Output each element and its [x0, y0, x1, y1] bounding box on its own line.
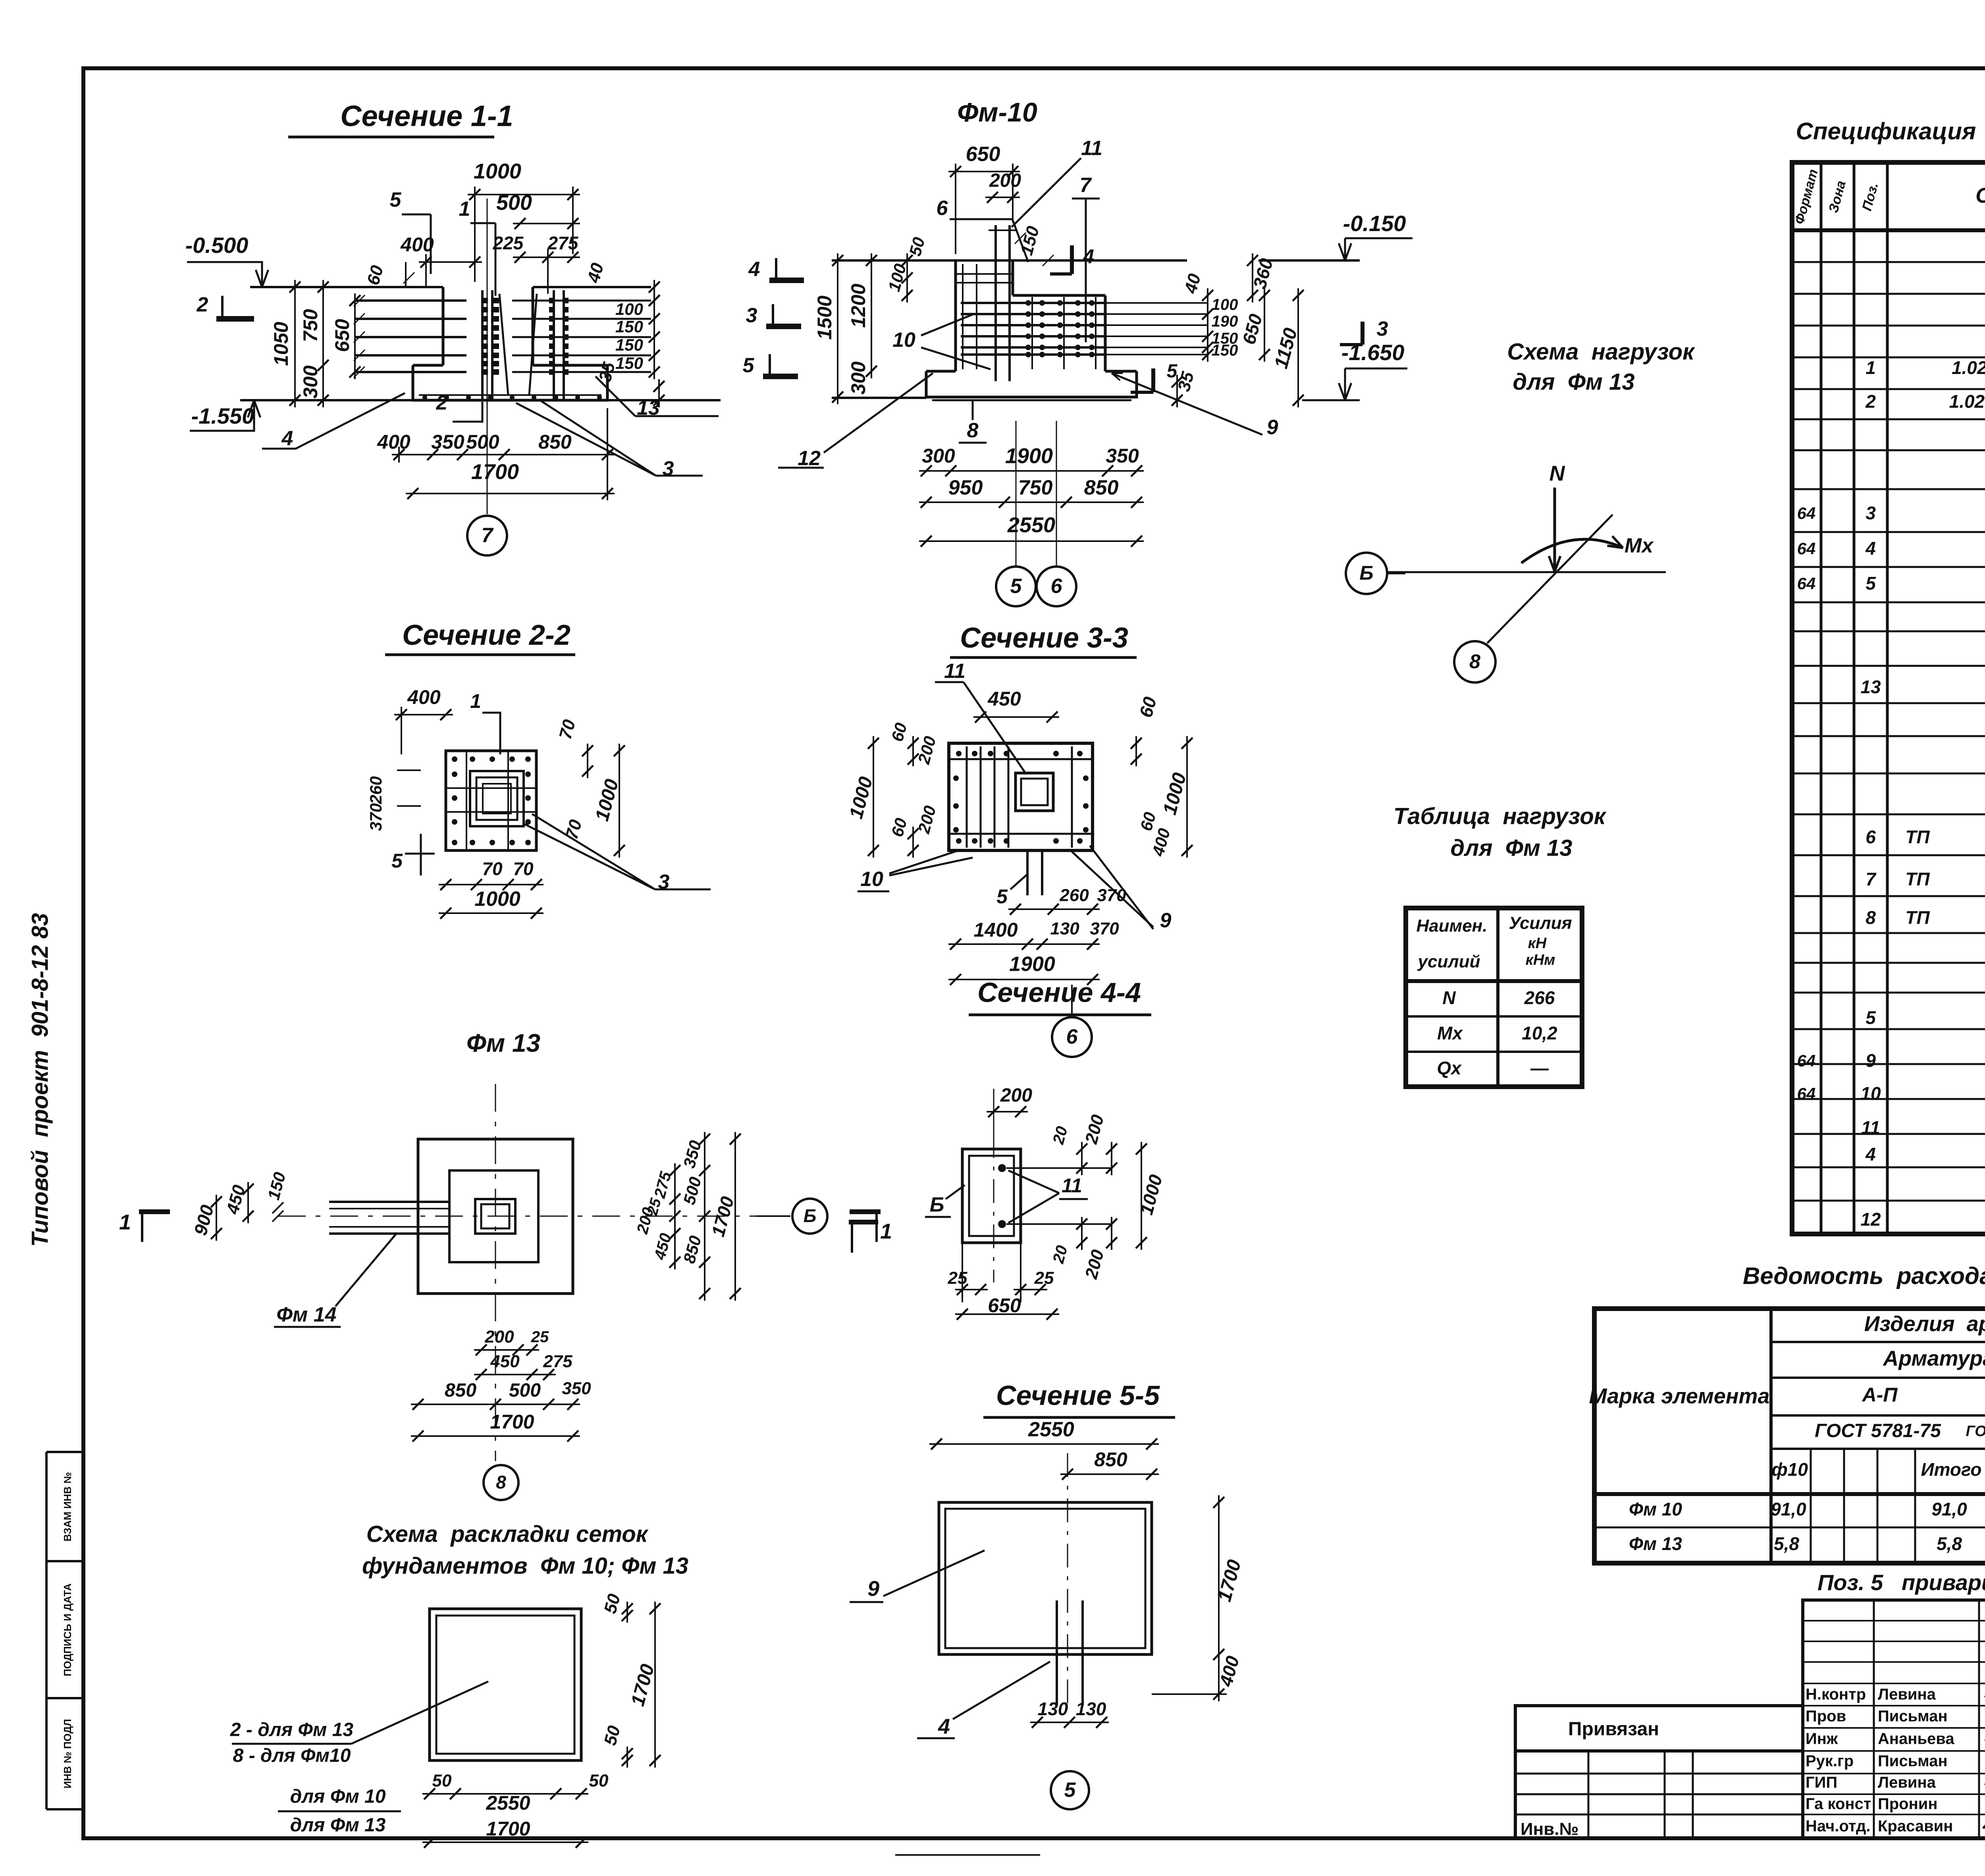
Fm-10 left dim 1500 — [837, 253, 838, 404]
Fm-13 plan bottom dim 1700 — [411, 1435, 580, 1437]
svg-text:25: 25 — [948, 1269, 967, 1288]
svg-text:Схема нагрузок: Схема нагрузок — [1507, 339, 1695, 364]
svg-text:Инж: Инж — [1806, 1730, 1838, 1748]
section 3-3 dots — [956, 751, 962, 756]
section 5-5 axis circle 5 — [1051, 1771, 1089, 1809]
svg-text:1200: 1200 — [847, 283, 869, 328]
svg-text:3: 3 — [663, 457, 674, 480]
Fm-10 dim 200 — [985, 197, 1020, 198]
svg-text:11: 11 — [944, 660, 966, 683]
section 3-3 dim 1000 left — [873, 736, 874, 858]
svg-text:Сечение 5-5: Сечение 5-5 — [996, 1380, 1160, 1411]
svg-text:64: 64 — [1797, 574, 1816, 593]
svg-text:850: 850 — [445, 1380, 476, 1401]
svg-text:Изделия арматурные: Изделия арматурные — [1864, 1312, 1985, 1336]
svg-text:1700: 1700 — [486, 1818, 530, 1840]
svg-text:ВЗАМ ИНВ №: ВЗАМ ИНВ № — [62, 1472, 73, 1542]
svg-text:-0.150: -0.150 — [1343, 211, 1406, 236]
section 4-4 center axis — [993, 1089, 994, 1282]
svg-text:100: 100 — [1212, 296, 1238, 314]
svg-text:10: 10 — [892, 329, 915, 352]
section 2-2 rebar dots ring — [452, 756, 457, 762]
svg-text:2550: 2550 — [486, 1792, 530, 1814]
Fm-13 plan middle square — [449, 1170, 538, 1262]
steel table header row4 line — [1771, 1448, 1985, 1450]
section 3-3 axis to circle 6 — [1071, 985, 1073, 1017]
svg-text:500: 500 — [496, 191, 532, 214]
svg-text:N: N — [1442, 987, 1456, 1008]
svg-text:5,8: 5,8 — [1937, 1533, 1962, 1554]
title block privyazan box — [1515, 1706, 1803, 1751]
svg-text:10: 10 — [1860, 1083, 1881, 1104]
svg-text:6: 6 — [937, 197, 948, 220]
section 3-3 dims 260 370 — [1008, 908, 1100, 910]
svg-text:130: 130 — [1076, 1699, 1106, 1719]
svg-text:Типовой проект 901-8-12 83: Типовой проект 901-8-12 83 — [27, 913, 53, 1247]
svg-text:Б: Б — [930, 1193, 944, 1217]
section 5-5 anchor tails — [1056, 1600, 1058, 1705]
svg-text:усилий: усилий — [1417, 952, 1480, 972]
Fm-13 plan right dim column — [674, 1163, 676, 1269]
section 1-1 footing rebar dots — [422, 395, 427, 400]
section 5-5 dim 2550 — [929, 1443, 1159, 1445]
section 3-3 anchor square — [1016, 773, 1053, 811]
section 3-3 horizontal mesh — [949, 758, 1093, 760]
svg-text:13: 13 — [1860, 677, 1881, 697]
Fm-13 plan bottom dims 450 275 — [474, 1374, 556, 1375]
section 5-5 dim 1700 right — [1218, 1495, 1220, 1662]
svg-text:Б: Б — [804, 1205, 817, 1226]
svg-text:—: — — [1530, 1058, 1549, 1078]
section 1-1 dim 400 — [419, 261, 482, 263]
svg-text:750: 750 — [1018, 476, 1053, 499]
svg-text:2: 2 — [436, 391, 448, 415]
section 2-2 bottom dim 1000 — [439, 912, 543, 914]
svg-text:91,0: 91,0 — [1931, 1499, 1967, 1519]
svg-text:5: 5 — [1064, 1779, 1076, 1802]
svg-text:9: 9 — [1866, 1050, 1876, 1071]
Fm-10 lower ground line left — [832, 397, 926, 399]
section 1-1 footing outline — [413, 364, 443, 367]
svg-text:5: 5 — [1010, 575, 1022, 598]
svg-text:150: 150 — [615, 335, 643, 354]
steel table header row3 line — [1771, 1414, 1985, 1417]
svg-text:ТП: ТП — [1905, 869, 1930, 889]
load scheme Mx arc — [1521, 539, 1623, 563]
section 3-3 dim 450 — [973, 716, 1059, 718]
svg-text:для Фм 10: для Фм 10 — [290, 1786, 386, 1807]
section 3-3 axis circle 6 — [1052, 1017, 1092, 1057]
svg-text:А-П: А-П — [1862, 1384, 1898, 1406]
section 1-1 axis line to circle 7 — [487, 199, 488, 514]
section 5-5 center axis — [1067, 1453, 1068, 1703]
svg-text:8: 8 — [496, 1472, 506, 1492]
svg-text:8: 8 — [1469, 650, 1480, 673]
svg-text:N: N — [1549, 461, 1565, 485]
svg-text:2: 2 — [1865, 391, 1876, 412]
svg-text:8 - для Фм10: 8 - для Фм10 — [233, 1745, 351, 1766]
svg-text:3: 3 — [746, 304, 757, 327]
Fm-13 plan beam — [329, 1201, 449, 1203]
Fm-13 plan axis circle 8 — [484, 1465, 518, 1500]
Fm-10 ground line -0.150 — [832, 259, 1187, 262]
svg-text:2550: 2550 — [1007, 513, 1055, 537]
svg-text:300: 300 — [922, 445, 955, 467]
section 3-3 dim 1000 right — [1186, 736, 1188, 858]
svg-text:5,8: 5,8 — [1774, 1533, 1799, 1554]
svg-text:275: 275 — [547, 233, 579, 253]
svg-text:Красавин: Красавин — [1878, 1818, 1953, 1835]
svg-text:Пров: Пров — [1806, 1708, 1846, 1725]
svg-text:Рук.гр: Рук.гр — [1806, 1753, 1854, 1770]
section 1-1 left dim 750 300 — [322, 280, 324, 407]
section 5-5 dim 850 — [1060, 1473, 1159, 1475]
svg-text:Таблица нагрузок: Таблица нагрузок — [1393, 803, 1607, 829]
svg-text:50: 50 — [589, 1771, 609, 1791]
svg-text:ГОСТ5781-75: ГОСТ5781-75 — [1966, 1423, 1985, 1440]
svg-text:400: 400 — [400, 233, 434, 256]
section 2-2 inner square 2 — [476, 777, 517, 820]
Fm-10 column rebars — [962, 264, 964, 369]
svg-text:ГОСТ 5781-75: ГОСТ 5781-75 — [1815, 1421, 1941, 1442]
load table grid — [1406, 908, 1582, 1087]
svg-text:9: 9 — [867, 1577, 879, 1600]
steel table data row line — [1594, 1527, 1985, 1529]
svg-text:-1.550: -1.550 — [191, 403, 254, 428]
svg-text:850: 850 — [1094, 1448, 1127, 1471]
svg-text:5: 5 — [1866, 1007, 1876, 1028]
svg-text:650: 650 — [988, 1294, 1021, 1317]
svg-text:11: 11 — [1062, 1174, 1082, 1197]
svg-text:5: 5 — [743, 354, 755, 377]
section 1-1 pedestal taper lines — [499, 294, 508, 395]
load scheme circle 8 — [1454, 641, 1495, 683]
svg-text:850: 850 — [1084, 476, 1119, 499]
Fm-10 rebar dots — [1025, 300, 1031, 306]
svg-text:Mx: Mx — [1437, 1023, 1463, 1043]
section 5-5 dim 400 right — [1218, 1647, 1220, 1701]
section 1-1 left mesh rebar lines — [355, 299, 466, 302]
load scheme axis 8 diagonal — [1487, 515, 1613, 643]
section 1-1 dim 225 275 — [513, 256, 580, 258]
section 1-1 right dims 100 150 150 150 — [653, 293, 655, 379]
Fm-10 axis lines to circles 5 6 — [1016, 421, 1017, 567]
svg-text:70: 70 — [482, 858, 503, 879]
svg-text:2 - для Фм 13: 2 - для Фм 13 — [230, 1720, 354, 1741]
svg-text:500: 500 — [509, 1380, 541, 1401]
svg-text:Письман: Письман — [1878, 1708, 1948, 1725]
svg-text:кНм: кНм — [1526, 952, 1555, 968]
section 4-4 rect — [962, 1149, 1021, 1243]
specification table row lines — [1792, 261, 1985, 263]
svg-text:ИНВ № ПОДЛ: ИНВ № ПОДЛ — [62, 1719, 73, 1788]
svg-text:1500: 1500 — [813, 295, 836, 339]
Fm-13 plan bottom dims 850 500 350 — [411, 1404, 580, 1405]
svg-text:4: 4 — [938, 1714, 950, 1738]
svg-text:Фм 14: Фм 14 — [276, 1303, 336, 1327]
svg-text:2550: 2550 — [1028, 1418, 1074, 1441]
svg-text:Qx: Qx — [1437, 1058, 1462, 1078]
svg-text:1: 1 — [1866, 357, 1876, 378]
svg-text:64: 64 — [1797, 1084, 1816, 1103]
svg-text:91,0: 91,0 — [1771, 1499, 1806, 1519]
svg-text:Инв.№: Инв.№ — [1521, 1820, 1579, 1839]
svg-text:300: 300 — [299, 365, 322, 399]
title block privyazan grid — [1515, 1751, 1803, 1838]
steel table header row2 line — [1771, 1377, 1985, 1379]
svg-text:150: 150 — [615, 354, 643, 372]
svg-text:1.020-1 1-1 0,0,10-07: 1.020-1 1-1 0,0,10-07 — [1952, 357, 1985, 378]
svg-text:370: 370 — [366, 803, 385, 831]
svg-text:11: 11 — [1861, 1117, 1880, 1138]
section 4-4 bottom dim 650 — [955, 1313, 1059, 1315]
section 4-4 bolt dots — [998, 1164, 1006, 1172]
svg-text:ТП: ТП — [1905, 827, 1930, 847]
svg-text:1900: 1900 — [1005, 444, 1053, 468]
svg-text:Фм 13: Фм 13 — [466, 1029, 540, 1057]
svg-text:350: 350 — [562, 1379, 591, 1398]
Fm-10 axis circle 5 — [996, 567, 1036, 606]
svg-text:Схема раскладки сеток: Схема раскладки сеток — [366, 1521, 649, 1547]
svg-text:Ананьева: Ананьева — [1878, 1730, 1954, 1748]
svg-text:Поз. 5 приварить к горизон: Поз. 5 приварить к горизонтальным сеткам… — [1817, 1570, 1985, 1595]
svg-text:Н.контр: Н.контр — [1806, 1686, 1866, 1703]
svg-text:64: 64 — [1797, 539, 1816, 558]
section 5-5 rect — [939, 1502, 1152, 1654]
Fm-13 plan left dims 900 450 150 — [216, 1195, 217, 1241]
svg-text:Наимен.: Наимен. — [1416, 916, 1488, 936]
svg-text:200: 200 — [989, 170, 1021, 191]
svg-text:Сечение 1-1: Сечение 1-1 — [340, 100, 513, 133]
steel table sub verticals A-II — [1810, 1449, 1812, 1563]
svg-text:Нач.отд.: Нач.отд. — [1806, 1818, 1870, 1835]
svg-text:2: 2 — [197, 293, 208, 316]
svg-text:500: 500 — [466, 431, 499, 453]
svg-text:12: 12 — [1860, 1209, 1881, 1230]
specification table column lines — [1820, 162, 1823, 1234]
section 1-1 right mesh rebar lines — [512, 300, 651, 302]
svg-text:450: 450 — [987, 688, 1021, 710]
Fm-10 column horizontal mesh lines — [956, 273, 1013, 275]
svg-text:8: 8 — [967, 419, 979, 442]
section 2-2 bottom dims 70 70 — [439, 884, 543, 885]
svg-text:25: 25 — [531, 1328, 549, 1346]
svg-text:50: 50 — [432, 1771, 452, 1791]
Fm-10 top dim 650 — [948, 171, 1020, 172]
svg-text:10,2: 10,2 — [1522, 1023, 1557, 1043]
svg-text:5: 5 — [390, 189, 402, 212]
svg-text:225: 225 — [493, 233, 524, 253]
svg-text:Фм-10: Фм-10 — [957, 97, 1037, 127]
Fm-13 plan horizontal axis — [278, 1216, 788, 1217]
steel table main verticals — [1769, 1309, 1773, 1563]
section 1-1 ground line -0.500 — [250, 286, 443, 288]
specification table header separator — [1792, 228, 1985, 232]
section 1-1 left dim 650 — [354, 293, 356, 379]
svg-text:1400: 1400 — [973, 919, 1018, 941]
section 2-2 dim 400 — [394, 714, 453, 715]
svg-text:200: 200 — [1000, 1085, 1032, 1106]
section 1-1 rebar section squares — [482, 298, 488, 303]
svg-text:4: 4 — [748, 258, 760, 281]
svg-text:Сечение 4-4: Сечение 4-4 — [977, 977, 1141, 1008]
svg-text:Фм 10: Фм 10 — [1629, 1499, 1682, 1519]
svg-text:Арматура класса: Арматура класса — [1882, 1346, 1985, 1370]
section 5-5 bottom dims 130 130 — [1030, 1722, 1109, 1723]
steel table outer border — [1594, 1309, 1985, 1563]
svg-text:1: 1 — [470, 690, 481, 712]
svg-text:Усилия: Усилия — [1509, 914, 1572, 933]
svg-text:4: 4 — [281, 427, 293, 450]
load scheme circle B — [1346, 553, 1387, 594]
title block signature table — [1803, 1600, 1985, 1838]
svg-text:Марка элемента: Марка элемента — [1589, 1384, 1769, 1408]
section 1-1 pedestal outline — [442, 287, 445, 365]
svg-text:1: 1 — [459, 198, 470, 221]
svg-text:1.020-1 1-1 0.0. 10-01: 1.020-1 1-1 0.0. 10-01 — [1949, 391, 1985, 412]
svg-text:400: 400 — [377, 431, 410, 453]
svg-text:70: 70 — [513, 858, 534, 879]
svg-text:6: 6 — [1066, 1026, 1078, 1049]
Fm-13 plan bottom dims 200 25 — [474, 1349, 539, 1351]
svg-text:1000: 1000 — [474, 888, 520, 911]
svg-text:1000: 1000 — [474, 159, 521, 183]
svg-text:9: 9 — [1267, 416, 1278, 439]
section 1-1 top dim 500 — [513, 223, 580, 224]
Fm-10 block vertical rebars — [1031, 297, 1033, 369]
section 3-3 dims 1400 130 370 — [948, 943, 1100, 945]
svg-text:750: 750 — [299, 309, 322, 342]
section 3-3 vertical rebars — [966, 746, 968, 848]
section 1-1 lower ground line left — [240, 399, 413, 401]
svg-text:5: 5 — [1866, 573, 1876, 594]
svg-text:3: 3 — [1866, 503, 1876, 523]
svg-text:260: 260 — [366, 776, 385, 804]
section 1-1 bottom dims 400 350 500 850 — [392, 454, 615, 455]
steel table header bottom line — [1594, 1492, 1985, 1496]
svg-text:400: 400 — [407, 686, 441, 708]
load scheme axis B horizontal — [1387, 571, 1666, 573]
Fm-13 plan axis circle B — [756, 1215, 790, 1217]
section 1-1 top dim 1000 — [468, 194, 580, 195]
svg-text:3: 3 — [1377, 318, 1388, 341]
svg-text:1700: 1700 — [471, 460, 519, 484]
svg-text:650: 650 — [331, 319, 353, 352]
svg-text:370: 370 — [1090, 919, 1119, 939]
Fm-10 anchor bolts — [994, 225, 997, 381]
Fm-10 right dim 1150 — [1297, 288, 1299, 407]
svg-text:64: 64 — [1797, 504, 1816, 523]
section 2-2 outer square — [446, 751, 536, 850]
section 3-3 anchor tails — [1026, 850, 1029, 895]
svg-text:8: 8 — [1866, 907, 1876, 928]
mesh layout bottom dim line — [422, 1793, 588, 1795]
svg-text:Б: Б — [1359, 562, 1373, 584]
section 1-1 axis circle 7 — [467, 516, 507, 555]
svg-text:450: 450 — [490, 1352, 520, 1371]
mesh layout dim 1700 right — [654, 1602, 656, 1768]
section 1-1 lower ground line right — [607, 399, 721, 401]
svg-text:5: 5 — [1167, 361, 1178, 382]
svg-text:7: 7 — [1866, 869, 1877, 889]
svg-text:Обозначение: Обозначение — [1975, 183, 1985, 207]
svg-text:64: 64 — [1797, 1051, 1816, 1070]
svg-text:10: 10 — [860, 868, 883, 891]
Fm-10 mesh horizontal rebars — [961, 302, 1105, 304]
svg-text:130: 130 — [1038, 1699, 1068, 1719]
svg-text:ТП: ТП — [1905, 907, 1930, 928]
sidebar stamp boxes — [45, 1452, 48, 1809]
svg-text:для Фм 13: для Фм 13 — [1513, 369, 1634, 395]
section 1-1 vertical rebars — [481, 290, 484, 399]
svg-text:266: 266 — [1524, 987, 1555, 1008]
svg-text:130: 130 — [1050, 919, 1079, 939]
svg-text:Письман: Письман — [1878, 1753, 1948, 1770]
svg-text:4: 4 — [1865, 1144, 1876, 1165]
section 1-1 bottom dim 1700 — [406, 493, 615, 494]
Fm-10 right block outline — [1013, 294, 1105, 297]
svg-text:1900: 1900 — [1009, 953, 1055, 976]
svg-text:-0.500: -0.500 — [185, 233, 249, 258]
section 3-3 dim 1900 — [948, 979, 1100, 980]
svg-text:150: 150 — [1212, 342, 1238, 359]
svg-text:Mx: Mx — [1625, 534, 1654, 557]
svg-text:Га конст: Га конст — [1806, 1795, 1871, 1813]
svg-text:950: 950 — [948, 476, 983, 499]
section 2-2 dim 1000 right — [619, 744, 620, 858]
section 2-2 inner square — [470, 771, 524, 826]
svg-text:Привязан: Привязан — [1568, 1719, 1659, 1740]
svg-text:ф10: ф10 — [1771, 1459, 1808, 1480]
svg-text:для Фм 13: для Фм 13 — [1450, 835, 1572, 861]
section 2-2 inner square 3 — [483, 784, 511, 814]
Fm-10 footing outline — [926, 370, 956, 373]
Fm-10 bottom dims 300 1900 350 — [919, 470, 1144, 472]
Fm-10 right dims 100 190 150 150 — [1207, 288, 1208, 362]
Fm-13 plan vertical axis — [495, 1084, 496, 1461]
svg-text:650: 650 — [966, 143, 1000, 166]
svg-text:фундаментов Фм 10; Фм 13: фундаментов Фм 10; Фм 13 — [362, 1553, 688, 1579]
svg-text:Левина: Левина — [1878, 1774, 1936, 1791]
Fm-13 plan anchor square — [475, 1199, 515, 1234]
svg-text:260: 260 — [1059, 886, 1089, 905]
section 4-4 dim 1000 right — [1141, 1142, 1142, 1250]
svg-text:Сечение 2-2: Сечение 2-2 — [402, 619, 570, 651]
scan dash below frame 4 — [895, 1854, 1040, 1856]
svg-text:350: 350 — [431, 431, 464, 453]
svg-text:6: 6 — [1051, 575, 1063, 598]
load scheme N force arrow — [1553, 488, 1556, 569]
specification table outer border — [1792, 162, 1985, 1234]
svg-text:7: 7 — [1080, 174, 1092, 197]
section 1-1 left dim 1050 — [294, 280, 296, 407]
svg-text:ПОДПИСЬ И ДАТА: ПОДПИСЬ И ДАТА — [62, 1583, 73, 1676]
svg-text:1: 1 — [880, 1219, 892, 1243]
svg-text:300: 300 — [847, 361, 869, 395]
Fm-10 right dim 650 — [1264, 288, 1265, 362]
svg-text:Фм 13: Фм 13 — [1629, 1533, 1682, 1554]
section 2-2 mesh lines — [446, 787, 536, 789]
Fm-13 plan outer square — [418, 1139, 573, 1294]
svg-text:5: 5 — [391, 850, 403, 872]
Fm-10 left column outline — [954, 260, 957, 371]
svg-text:Пронин: Пронин — [1878, 1795, 1938, 1813]
svg-text:1: 1 — [119, 1210, 131, 1234]
Fm-10 left dim 1200 — [871, 253, 872, 378]
svg-text:100: 100 — [615, 300, 643, 318]
svg-text:4: 4 — [1083, 245, 1094, 268]
svg-text:11: 11 — [1081, 137, 1102, 160]
